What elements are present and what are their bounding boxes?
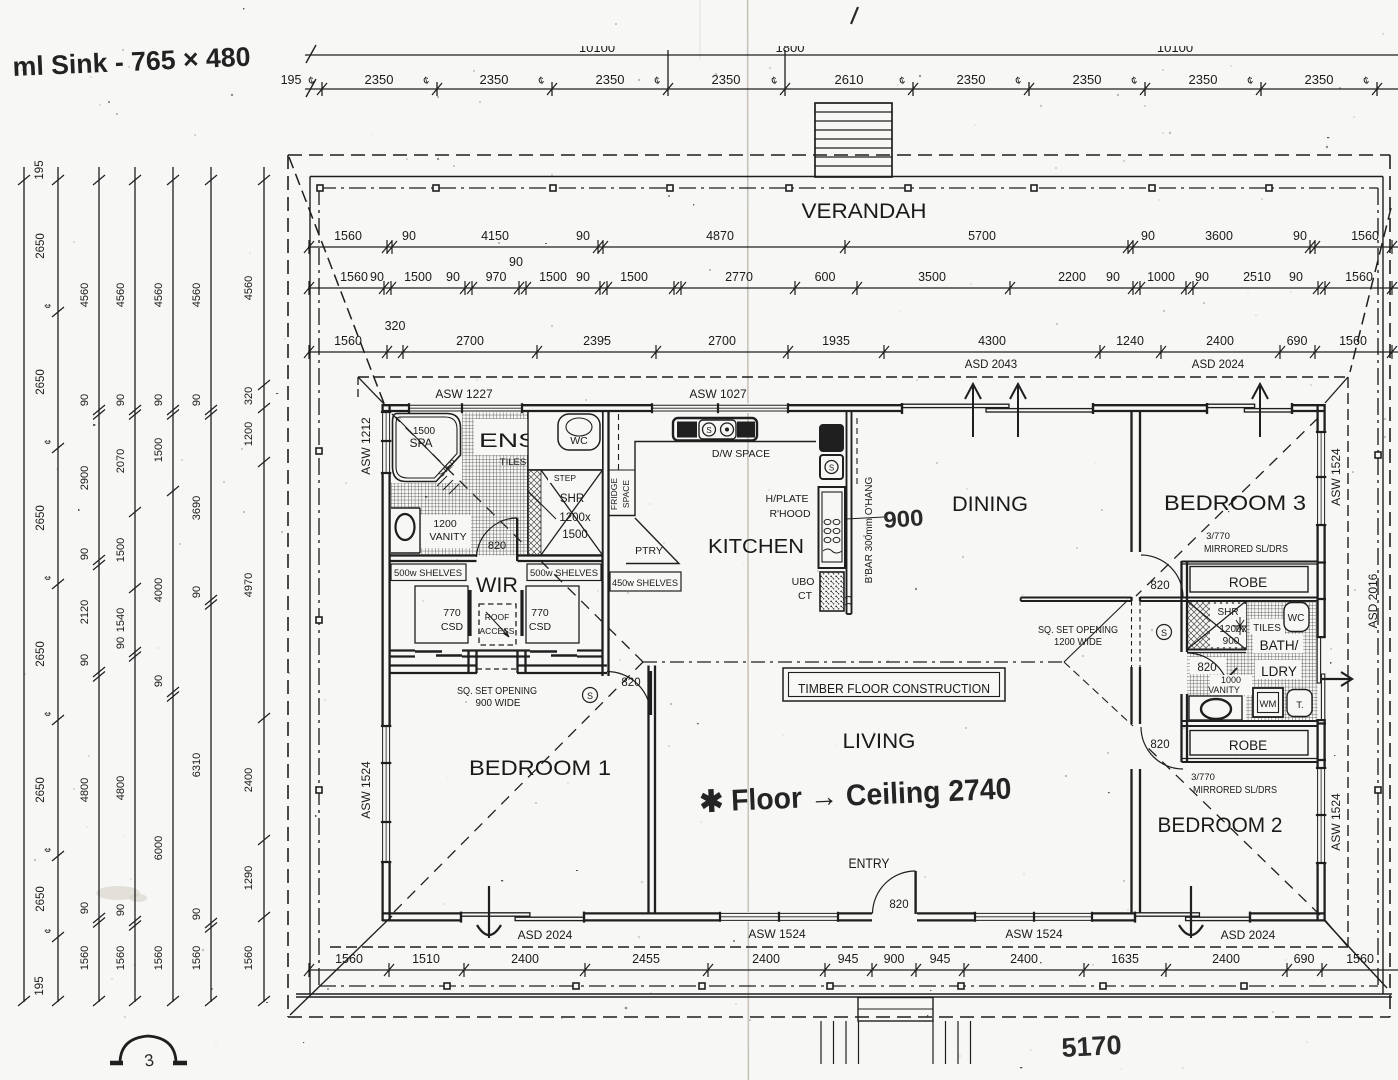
svg-text:BEDROOM 1: BEDROOM 1	[469, 757, 611, 780]
svg-text:¢: ¢	[43, 575, 53, 580]
wc nook	[528, 413, 602, 471]
svg-text:BATH/: BATH/	[1260, 638, 1299, 653]
roof hip SE interior	[1143, 743, 1320, 915]
svg-text:2650: 2650	[35, 505, 47, 531]
svg-text:2400: 2400	[1212, 952, 1240, 966]
eave hip bottom-right	[1325, 920, 1348, 947]
svg-text:90: 90	[79, 654, 91, 666]
entry porch steps	[821, 1021, 971, 1064]
svg-text:ASD 2024: ASD 2024	[1221, 928, 1276, 942]
svg-text:1510: 1510	[412, 952, 440, 966]
svg-text:CSD: CSD	[529, 621, 552, 633]
verandah post markers	[316, 185, 1381, 989]
svg-text:90: 90	[370, 270, 384, 284]
cupboard slider bars	[468, 590, 471, 636]
svg-text:690: 690	[1294, 952, 1315, 966]
sliding door ASD 2024 bedroom1	[461, 912, 584, 921]
svg-text:1290: 1290	[243, 866, 255, 890]
wc bath	[1284, 603, 1309, 632]
roof hip bottom-right	[1324, 920, 1387, 988]
svg-text:ASW 1027: ASW 1027	[689, 387, 747, 401]
svg-text:¢: ¢	[43, 711, 53, 716]
window ASW 1524 bottom right	[975, 912, 1092, 922]
svg-text:1500: 1500	[539, 270, 567, 284]
svg-text:1560: 1560	[340, 270, 368, 284]
svg-text:ROBE: ROBE	[1229, 575, 1267, 590]
svg-text:¢: ¢	[43, 439, 53, 444]
left dim col C	[79, 283, 105, 970]
svg-text:3/770: 3/770	[1191, 772, 1215, 783]
timber floor construction box	[783, 668, 1005, 701]
roof hip NW interior	[392, 414, 643, 662]
svg-text:T.: T.	[1296, 700, 1303, 711]
svg-text:4800: 4800	[115, 776, 127, 800]
svg-text:SHR: SHR	[1217, 607, 1238, 618]
kitchen bench edge	[609, 442, 817, 516]
svg-text:SQ. SET OPENING: SQ. SET OPENING	[457, 686, 537, 697]
svg-text:90: 90	[191, 908, 203, 920]
svg-text:2650: 2650	[35, 777, 47, 803]
svg-text:3/770: 3/770	[1206, 531, 1230, 542]
left dim col E	[153, 283, 179, 970]
bath vanity	[1189, 696, 1242, 720]
svg-text:900: 900	[883, 504, 925, 533]
svg-text:820: 820	[889, 899, 908, 911]
smoke detector hall	[1157, 625, 1172, 640]
arrow ASD 2016	[1322, 672, 1352, 686]
svg-text:4560: 4560	[153, 283, 165, 307]
svg-text:90: 90	[115, 394, 127, 406]
svg-text:1935: 1935	[822, 334, 850, 348]
cupboard box left 770	[415, 586, 468, 643]
svg-text:2400: 2400	[243, 768, 255, 792]
svg-text:KITCHEN: KITCHEN	[708, 536, 804, 558]
svg-text:945: 945	[930, 952, 951, 966]
svg-text:2350: 2350	[596, 72, 625, 87]
entry door arc	[873, 871, 916, 914]
hall sq set opening dashed	[1131, 601, 1133, 667]
pantry corner	[626, 518, 679, 564]
svg-text:1560: 1560	[334, 334, 362, 348]
dim row C ticks	[304, 345, 1397, 359]
window ASW 1524 left	[381, 726, 391, 862]
svg-text:2350: 2350	[1189, 72, 1218, 87]
svg-text:320: 320	[243, 387, 255, 405]
svg-text:90: 90	[1289, 270, 1303, 284]
eave corner dashes top-left vertical	[357, 377, 359, 400]
verandah deck bottom double line	[296, 993, 1392, 995]
kitchen sink unit	[673, 418, 757, 441]
cupboard sliding doors right 770 CSD	[530, 650, 557, 653]
svg-text:¢: ¢	[43, 847, 53, 852]
svg-text:4300: 4300	[978, 334, 1006, 348]
svg-text:945: 945	[838, 952, 859, 966]
svg-text:1560: 1560	[1346, 952, 1374, 966]
label STEP ens shower	[548, 472, 582, 483]
section marker 3	[120, 1036, 176, 1062]
svg-text:4560: 4560	[115, 283, 127, 307]
right wall junction marks	[1317, 563, 1326, 761]
svg-text:FRIDGE: FRIDGE	[609, 478, 619, 510]
svg-text:1540: 1540	[115, 608, 127, 632]
svg-text:S: S	[706, 426, 711, 435]
roof hip SW interior	[394, 662, 643, 912]
top cut-off dim labels	[579, 40, 1193, 55]
handwritten slash mark	[851, 7, 858, 24]
wall bedroom1 right	[647, 666, 649, 914]
fridge space dashed	[618, 414, 620, 470]
svg-text:970: 970	[486, 270, 507, 284]
cupboard box right 770	[526, 586, 579, 643]
ens text patch	[474, 419, 546, 455]
svg-text:2650: 2650	[35, 641, 47, 667]
svg-text:195: 195	[34, 160, 46, 179]
sliding door ASD 2024 bedroom3	[1207, 403, 1292, 412]
bedroom3 door arc 820	[1141, 555, 1183, 597]
roof access dashed box	[479, 604, 516, 645]
svg-text:¢: ¢	[43, 303, 53, 308]
svg-text:4000: 4000	[153, 578, 165, 602]
svg-text:1500: 1500	[115, 538, 127, 562]
smoke detector bedroom1	[583, 688, 598, 703]
svg-text:ACCESS: ACCESS	[480, 626, 515, 636]
svg-text:1000: 1000	[1221, 675, 1241, 685]
svg-text:900: 900	[1223, 636, 1240, 647]
verandah deck edge	[310, 177, 1383, 995]
paper fold crease	[747, 0, 750, 1080]
top entry steps	[815, 103, 892, 177]
svg-text:1560: 1560	[1351, 229, 1379, 243]
svg-text:ENTRY: ENTRY	[849, 855, 891, 871]
roof hip top-right	[1350, 208, 1391, 372]
wall shr south	[1187, 649, 1246, 651]
house left wall	[383, 404, 390, 921]
svg-text:1500: 1500	[153, 438, 165, 462]
dim row A line	[308, 246, 1398, 248]
label 1200 VANITY	[421, 515, 471, 548]
svg-text:D/W SPACE: D/W SPACE	[712, 448, 770, 460]
left dim col B 2650 chain	[34, 160, 64, 995]
wall robe1 bottom	[1140, 597, 1318, 599]
svg-text:3690: 3690	[191, 496, 203, 520]
svg-text:820: 820	[1150, 580, 1169, 592]
roof hip top-left	[289, 157, 385, 406]
ens shower door	[528, 491, 556, 519]
svg-text:2400: 2400	[752, 952, 780, 966]
bottom dim line	[308, 969, 1398, 971]
spa step hatch	[437, 476, 459, 494]
svg-text:VERANDAH: VERANDAH	[802, 200, 927, 223]
svg-text:TILES: TILES	[1253, 623, 1281, 634]
svg-text:2900: 2900	[79, 466, 91, 490]
svg-text:2400: 2400	[1010, 952, 1038, 966]
shelf label 500w right	[527, 564, 601, 581]
svg-text:1560: 1560	[1339, 334, 1367, 348]
svg-text:PTRY: PTRY	[635, 545, 663, 557]
svg-text:ASW 1524: ASW 1524	[748, 927, 806, 941]
top band end tick	[306, 45, 316, 97]
svg-text:90: 90	[402, 229, 416, 243]
bedroom1 door leaf	[649, 671, 652, 715]
sliding door ASD 2024 bedroom2	[1135, 912, 1250, 921]
bath shower star	[1233, 617, 1247, 635]
svg-text:SHR: SHR	[560, 493, 584, 505]
svg-text:ASW 1227: ASW 1227	[435, 387, 493, 401]
svg-text:1560: 1560	[115, 946, 127, 970]
top overall dimension band lines	[305, 54, 1398, 56]
svg-text:2350: 2350	[480, 72, 509, 87]
svg-text:1560: 1560	[335, 952, 363, 966]
wall ens block right	[601, 412, 603, 676]
svg-text:UBO: UBO	[792, 576, 815, 588]
svg-text:ASD 2016: ASD 2016	[1366, 573, 1380, 628]
wir doorway jambs	[467, 651, 469, 674]
eave line below bottom wall dashed	[330, 946, 1348, 948]
kitchen bar wall	[846, 412, 848, 614]
left dim col D	[115, 283, 141, 970]
roof hip NE interior	[1136, 418, 1318, 596]
svg-text:90: 90	[115, 904, 127, 916]
dim row B ticks	[304, 281, 1397, 295]
bar fridge unit dark	[820, 425, 843, 451]
svg-text:90: 90	[576, 229, 590, 243]
spa strike diagonal	[396, 417, 448, 470]
wall bedroom1 top	[390, 664, 477, 666]
svg-text:320: 320	[385, 319, 406, 333]
svg-text:2610: 2610	[835, 72, 864, 87]
svg-text:4560: 4560	[243, 276, 255, 300]
svg-text:90: 90	[1141, 229, 1155, 243]
left dim col G	[243, 276, 270, 970]
svg-text:4150: 4150	[481, 229, 509, 243]
svg-text:500w SHELVES: 500w SHELVES	[394, 568, 462, 579]
svg-text:90: 90	[79, 902, 91, 914]
svg-text:1635: 1635	[1111, 952, 1139, 966]
svg-text:2400: 2400	[1206, 334, 1234, 348]
svg-text:ROBE: ROBE	[1229, 738, 1267, 753]
svg-text:820: 820	[488, 540, 506, 552]
svg-text:1200 WIDE: 1200 WIDE	[1054, 637, 1102, 648]
svg-text:SPACE: SPACE	[621, 480, 631, 509]
svg-text:S: S	[587, 691, 593, 701]
svg-text:SPA: SPA	[409, 436, 432, 450]
shelf label 500w left	[391, 564, 466, 581]
svg-text:90: 90	[191, 394, 203, 406]
eave hip top-right	[1325, 377, 1348, 403]
svg-text:2350: 2350	[1073, 72, 1102, 87]
svg-text:195: 195	[281, 73, 302, 87]
window ASW 1212	[381, 412, 391, 473]
svg-text:90: 90	[446, 270, 460, 284]
house right wall	[1318, 404, 1325, 921]
svg-text:690: 690	[1287, 334, 1308, 348]
svg-text:LIVING: LIVING	[843, 730, 916, 753]
roof ridge dash-dot	[643, 661, 1064, 663]
wall robe2 bottom	[1182, 758, 1318, 760]
svg-text:WIR: WIR	[476, 574, 518, 597]
svg-text:4870: 4870	[706, 229, 734, 243]
arrow ASD 2024 bedroom1	[477, 886, 501, 938]
svg-text:6000: 6000	[153, 836, 165, 860]
svg-text:1200x: 1200x	[559, 512, 591, 524]
wall bath robe2	[1182, 720, 1318, 722]
svg-text:450w SHELVES: 450w SHELVES	[612, 578, 678, 589]
house top wall	[382, 405, 1325, 411]
window ASW 1227	[409, 403, 522, 413]
bar sink S unit	[820, 455, 843, 479]
dim row C line	[308, 351, 1398, 353]
label BATH LDRY	[1253, 634, 1303, 653]
svg-text:BEDROOM 2: BEDROOM 2	[1158, 814, 1283, 837]
UBO unit	[820, 572, 844, 611]
svg-text:1560: 1560	[334, 229, 362, 243]
svg-text:90: 90	[153, 675, 165, 687]
top band centreline ticks	[317, 50, 1382, 96]
svg-text:2350: 2350	[365, 72, 394, 87]
svg-text:WC: WC	[1288, 613, 1305, 624]
svg-text:2200: 2200	[1058, 270, 1086, 284]
sliding door ASD 2016	[1316, 637, 1326, 720]
svg-text:ASD 2024: ASD 2024	[1192, 359, 1245, 371]
svg-text:5170: 5170	[1061, 1030, 1123, 1063]
svg-text:4560: 4560	[191, 283, 203, 307]
bedroom2 door arc 820	[1141, 727, 1183, 769]
svg-text:900 WIDE: 900 WIDE	[476, 698, 521, 709]
svg-text:1560: 1560	[243, 946, 255, 970]
svg-text:2700: 2700	[708, 334, 736, 348]
svg-text:4560: 4560	[79, 283, 91, 307]
svg-text:LDRY: LDRY	[1261, 664, 1297, 679]
entry door leaf	[914, 871, 916, 914]
wir doorway dashed	[477, 668, 517, 670]
label 820 bath	[1190, 657, 1226, 674]
roof access arrow	[486, 612, 509, 637]
svg-text:MIRRORED SL/DRS: MIRRORED SL/DRS	[1204, 544, 1288, 555]
svg-text:TILES: TILES	[500, 457, 526, 468]
svg-text:90: 90	[153, 394, 165, 406]
svg-text:SQ. SET OPENING: SQ. SET OPENING	[1038, 625, 1118, 636]
wall hall	[1132, 412, 1141, 913]
svg-text:H/PLATE: H/PLATE	[766, 493, 809, 505]
svg-text:90: 90	[1106, 270, 1120, 284]
robe1 box	[1190, 567, 1308, 593]
dim row B line	[308, 287, 1398, 289]
svg-text:2350: 2350	[1305, 72, 1334, 87]
svg-text:ASW 1524: ASW 1524	[1329, 793, 1343, 851]
svg-text:4970: 4970	[243, 573, 255, 597]
bath tiled floor	[1246, 601, 1318, 720]
window ASW 1524 right top	[1316, 432, 1326, 525]
left dim col F	[191, 283, 217, 970]
svg-text:2700: 2700	[456, 334, 484, 348]
arrow ASD 2043 right	[1010, 384, 1026, 437]
svg-text:820: 820	[1197, 662, 1216, 674]
bath shower 1200x900	[1187, 601, 1246, 650]
bedroom1 door arc	[607, 672, 651, 716]
svg-text:6310: 6310	[191, 753, 203, 777]
svg-text:VANITY: VANITY	[1208, 685, 1240, 695]
svg-text:90: 90	[79, 394, 91, 406]
svg-text:820: 820	[1150, 739, 1169, 751]
eave line right dashed	[1347, 377, 1349, 947]
svg-text:ASD 2043: ASD 2043	[965, 359, 1017, 371]
window ASW 1524 right bottom	[1316, 768, 1326, 863]
label TILES bath	[1250, 619, 1285, 634]
svg-text:B'BAR 300mm O'HANG: B'BAR 300mm O'HANG	[864, 476, 875, 583]
svg-text:WM: WM	[1260, 699, 1277, 710]
svg-text:2400: 2400	[511, 952, 539, 966]
arrow ASD 2043 left	[965, 384, 981, 437]
left dim column lines	[24, 167, 264, 1002]
svg-text:1500: 1500	[404, 270, 432, 284]
sq set opening leader solid	[1064, 600, 1128, 662]
svg-text:BEDROOM 3: BEDROOM 3	[1164, 492, 1306, 515]
dim row A ticks	[304, 240, 1397, 254]
svg-text:5700: 5700	[968, 229, 996, 243]
verandah post line dash-dot	[319, 188, 1378, 986]
svg-text:ASW 1212: ASW 1212	[359, 417, 373, 475]
bath door arc	[1187, 653, 1229, 695]
paper smudge	[96, 886, 140, 900]
svg-text:TIMBER FLOOR CONSTRUCTION: TIMBER FLOOR CONSTRUCTION	[798, 681, 990, 696]
svg-text:2120: 2120	[79, 600, 91, 624]
svg-text:VANITY: VANITY	[429, 531, 466, 543]
washing machine WM	[1253, 688, 1283, 717]
svg-text:1200: 1200	[243, 422, 255, 446]
svg-text:ASW 1524: ASW 1524	[359, 761, 373, 819]
svg-text:S: S	[829, 464, 834, 473]
house bottom wall	[382, 913, 1325, 920]
eave corner top-left diagonal	[358, 377, 385, 405]
svg-text:2650: 2650	[35, 369, 47, 395]
svg-text:2650: 2650	[35, 233, 47, 259]
svg-text:770: 770	[443, 607, 461, 619]
svg-text:90: 90	[1195, 270, 1209, 284]
svg-text:900: 900	[884, 952, 905, 966]
svg-text:1000: 1000	[1147, 270, 1175, 284]
svg-text:ASW 1524: ASW 1524	[1005, 927, 1063, 941]
left dim end ticks	[18, 175, 270, 1006]
svg-text:2770: 2770	[725, 270, 753, 284]
label 1000 VANITY bath	[1210, 675, 1252, 695]
svg-text:CT: CT	[798, 590, 813, 602]
svg-text:1500: 1500	[562, 529, 588, 541]
sq set opening leader dashed	[1064, 662, 1133, 726]
svg-text:195: 195	[34, 976, 46, 995]
robe2 box	[1190, 731, 1308, 756]
svg-text:MIRRORED SL/DRS: MIRRORED SL/DRS	[1193, 785, 1277, 796]
handwritten 900 with leader	[846, 517, 884, 519]
svg-text:90: 90	[1293, 229, 1307, 243]
wall bath left	[1180, 561, 1182, 652]
svg-text:2650: 2650	[35, 886, 47, 912]
svg-text:1560: 1560	[153, 946, 165, 970]
ens vanity	[391, 508, 420, 553]
svg-text:90: 90	[509, 255, 523, 269]
roof overhang outline dashed	[288, 155, 1390, 1017]
svg-text:ROOF: ROOF	[485, 612, 510, 622]
bottom dim ticks	[304, 963, 1327, 977]
window ASW 1027	[652, 403, 788, 413]
wall ens bottom	[390, 554, 477, 556]
svg-text:600: 600	[815, 270, 836, 284]
svg-text:4800: 4800	[79, 778, 91, 802]
arrow ASD 2024 bedroom2	[1179, 886, 1203, 938]
svg-text:1560: 1560	[79, 946, 91, 970]
ens door leaf	[516, 518, 518, 561]
svg-text:ASW 1524: ASW 1524	[1329, 448, 1343, 506]
svg-text:2350: 2350	[712, 72, 741, 87]
